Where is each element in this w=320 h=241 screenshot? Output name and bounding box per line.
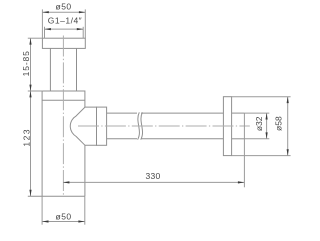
dim line 330: [63, 181, 244, 183]
trap body cup: [28, 91, 85, 196]
arrow d58 bottom: [287, 149, 289, 155]
horizontal centerline of outlet pipe: [78, 125, 250, 127]
dimension texts: [21, 1, 284, 221]
svg-text:123: 123: [21, 128, 31, 147]
arrow d50 bottom right: [78, 220, 84, 222]
dim ext line G thread left: [44, 27, 46, 38]
arrow 330 left: [63, 181, 69, 183]
arrow 123 top: [29, 91, 31, 97]
svg-text:ø50: ø50: [56, 211, 72, 221]
dim ext line flange bottom right: [232, 155, 291, 157]
dim ext line pipe top right: [244, 112, 269, 114]
arrow d32 bottom: [266, 132, 268, 138]
arrow d50 top left: [42, 11, 48, 13]
dim ext line body bottom right down: [84, 196, 86, 225]
arrow 15-85 top: [29, 38, 31, 44]
svg-text:G1–1/4″: G1–1/4″: [48, 16, 82, 26]
dim ext line at flange top left: [28, 37, 43, 39]
outlet pipe top wall (nut to break): [107, 112, 137, 114]
dim line diameter 32: [266, 113, 268, 139]
dim ext line body bottom left down: [41, 196, 43, 225]
dim line 15-85 and 123 vertical: [30, 38, 32, 196]
outlet pipe bottom wall (nut to break): [107, 138, 137, 140]
arrow G left: [45, 28, 51, 30]
arrow 15-85 bottom: [29, 85, 31, 91]
svg-text:15-85: 15-85: [21, 50, 31, 76]
dim ext line flange top right: [232, 96, 291, 98]
arrow 123 bottom: [29, 190, 31, 196]
arrow d32 top: [266, 113, 268, 119]
arrowheads: [29, 11, 288, 222]
svg-text:ø58: ø58: [273, 116, 283, 131]
wall flange / escutcheon: [223, 97, 231, 156]
dim line diameter 50 bottom: [42, 221, 85, 223]
pipe stub top behind flange: [232, 112, 245, 114]
arrow d50 bottom left: [42, 220, 48, 222]
outlet pipe top wall (break to wall flange): [141, 112, 223, 114]
pipe break curve 2: [141, 112, 143, 139]
top flange (G1-1/4 inlet nut): [42, 38, 85, 48]
arrow d50 top right: [79, 11, 85, 13]
svg-text:ø32: ø32: [254, 116, 264, 131]
dim ext line at body top left: [28, 90, 42, 92]
outlet pipe bottom wall (break to wall flange): [141, 138, 223, 140]
dim line G1-1/4: [45, 28, 84, 30]
inlet vertical tube wall left: [49, 48, 51, 91]
dim ext line pipe end down: [243, 113, 245, 187]
dim line diameter 50 top: [42, 11, 85, 13]
body collar joint line: [42, 99, 85, 101]
inlet vertical tube wall right: [76, 48, 78, 91]
elbow dome: [70, 107, 96, 145]
dim ext line flange right up: [84, 9, 86, 38]
centerlines: [63, 36, 249, 197]
pipe break curve 1: [138, 112, 140, 139]
arrow G right: [77, 28, 83, 30]
dim line diameter 58: [287, 97, 289, 156]
svg-text:ø50: ø50: [56, 1, 72, 11]
dim ext line pipe bottom right: [244, 138, 269, 140]
arrow 330 right: [238, 181, 244, 183]
svg-text:330: 330: [145, 171, 160, 181]
pipe stub bottom behind flange: [232, 138, 245, 140]
dim ext line flange left up: [41, 9, 43, 38]
vertical centerline of trap: [62, 36, 64, 197]
dim ext line G thread right: [82, 27, 84, 38]
outlet compression nut: [97, 107, 107, 145]
arrow d58 top: [287, 97, 289, 103]
